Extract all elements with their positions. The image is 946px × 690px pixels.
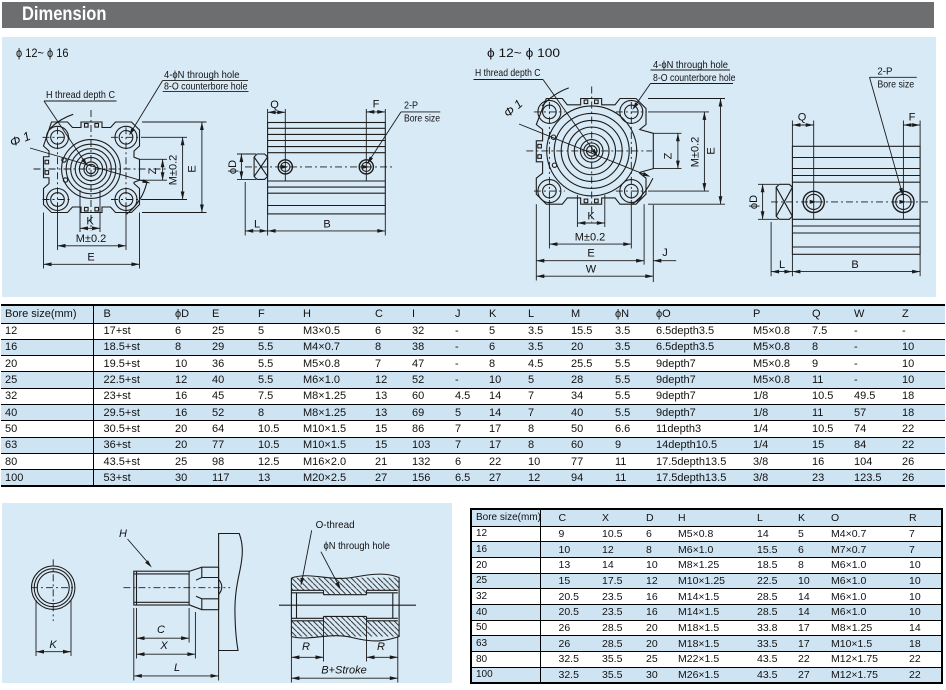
svg-text:E: E	[706, 147, 718, 154]
svg-text:4-ϕN through hole: 4-ϕN through hole	[164, 69, 240, 81]
dim M+-0.2 (TL right)	[141, 136, 187, 138]
svg-text:2-P: 2-P	[877, 66, 892, 78]
body profile lines	[268, 127, 386, 129]
rod boss	[776, 184, 792, 219]
body profile lines	[792, 157, 920, 159]
phiN through hole bore	[324, 594, 367, 596]
counterbore hole	[47, 126, 69, 148]
centerline	[123, 587, 230, 589]
section body hatched bottom band	[291, 616, 399, 636]
dim J (TR)	[652, 205, 654, 282]
section rotation arcs	[50, 114, 73, 128]
dim E (TL bottom)	[43, 213, 45, 269]
svg-text:Bore size: Bore size	[877, 79, 914, 91]
svg-text:Φ 1: Φ 1	[501, 97, 525, 121]
dim Z (TR)	[653, 132, 681, 134]
svg-text:E: E	[187, 165, 199, 172]
counterbore hole	[538, 180, 561, 203]
svg-text:O-thread: O-thread	[316, 519, 355, 531]
dim R left	[290, 637, 292, 683]
dim phiD (TL)	[237, 153, 256, 155]
counterbore hole	[620, 180, 643, 203]
dim B (TR)	[919, 254, 921, 276]
centerline	[245, 166, 394, 168]
pilot holes	[62, 158, 66, 162]
svg-text:ϕD: ϕD	[748, 195, 760, 209]
counterbore hole	[115, 126, 137, 148]
dim Q (TR)	[791, 121, 793, 147]
dim K (TR)	[576, 195, 578, 227]
section body hatched top band	[291, 578, 399, 595]
rod side view body	[134, 571, 189, 605]
svg-text:L: L	[254, 219, 260, 231]
dim X (rod)	[194, 612, 196, 659]
dim M+-0.2 (TR right)	[648, 111, 709, 113]
front view mounting plate outline	[536, 99, 653, 205]
svg-text:H thread depth C: H thread depth C	[475, 67, 541, 79]
cylinder body partial (wavy)	[219, 534, 243, 651]
dimension table 1 (bore 12-100, cols B..Z)	[1, 304, 945, 487]
bore concentric circles	[62, 140, 121, 199]
svg-text:ϕN through hole: ϕN through hole	[324, 540, 391, 552]
port 2-P left	[803, 191, 824, 212]
dim F (TR)	[902, 121, 904, 220]
dim phiD (TR)	[758, 183, 778, 185]
port 2-P right	[893, 191, 914, 212]
O-thread recess left	[291, 589, 323, 591]
svg-text:M±0.2: M±0.2	[575, 232, 606, 244]
svg-text:Z: Z	[147, 167, 159, 174]
dim E (TR bottom)	[535, 204, 537, 280]
svg-text:X: X	[159, 640, 168, 652]
svg-text:8-O counterbore hole: 8-O counterbore hole	[164, 81, 248, 93]
centerlines	[90, 110, 92, 231]
dim K (TL)	[79, 190, 81, 232]
svg-text:J: J	[662, 247, 668, 259]
svg-text:H thread depth C: H thread depth C	[46, 89, 115, 101]
svg-text:ϕ 12~ ϕ 16: ϕ 12~ ϕ 16	[16, 46, 69, 60]
counterbore hole	[538, 100, 561, 123]
centerline	[771, 201, 928, 203]
dim L (rod)	[133, 608, 135, 681]
svg-text:8-O counterbore hole: 8-O counterbore hole	[653, 72, 736, 84]
svg-text:Q: Q	[270, 99, 279, 111]
svg-text:E: E	[87, 252, 94, 264]
svg-text:B: B	[323, 219, 330, 231]
svg-text:Z: Z	[663, 152, 675, 159]
svg-text:L: L	[174, 662, 180, 674]
dimension table 2 (rod end, cols C..R)	[470, 508, 943, 684]
section rotation arcs	[542, 88, 569, 106]
dim K (rod)	[35, 600, 37, 656]
dim R right	[366, 621, 368, 662]
svg-text:K: K	[86, 216, 94, 228]
dim E (TR right)	[648, 98, 725, 100]
counterbore hole	[620, 100, 643, 123]
dim C (rod)	[136, 608, 138, 659]
O-thread recess right	[367, 589, 398, 591]
dim L (TL)	[244, 182, 246, 236]
section outline	[290, 578, 292, 637]
svg-text:4-ϕN through hole: 4-ϕN through hole	[653, 59, 728, 71]
thread lines	[134, 573, 189, 575]
centerlines	[591, 87, 593, 223]
dim Z (TL right)	[140, 158, 168, 160]
hex head	[189, 567, 219, 580]
centerlines	[52, 559, 54, 621]
svg-text:R: R	[377, 641, 385, 653]
counterbore hole	[115, 189, 137, 211]
svg-text:M±0.2: M±0.2	[168, 155, 180, 186]
svg-text:F: F	[909, 112, 916, 124]
svg-text:Q: Q	[798, 112, 807, 124]
dim B+Stroke	[291, 677, 397, 679]
dim W (TR)	[536, 275, 653, 277]
svg-text:K: K	[49, 639, 57, 651]
svg-text:E: E	[587, 248, 594, 260]
rod tip arc	[219, 579, 222, 594]
svg-text:2-P: 2-P	[404, 100, 418, 112]
svg-text:B+Stroke: B+Stroke	[321, 665, 367, 677]
dim B (TL)	[384, 214, 386, 236]
svg-text:H: H	[119, 528, 127, 540]
dim M+-0.2 (TL bottom)	[57, 205, 59, 250]
pilot holes	[551, 135, 555, 139]
counterbore hole	[47, 189, 69, 211]
svg-text:Φ 1: Φ 1	[8, 129, 33, 150]
centerline	[279, 604, 416, 606]
bore concentric circles	[547, 106, 637, 196]
dim F (TL)	[365, 109, 367, 181]
top blue drawing panel	[2, 37, 936, 297]
rod end circle view	[32, 566, 75, 609]
svg-text:R: R	[302, 641, 310, 653]
svg-text:K: K	[587, 211, 595, 223]
dim L (TR)	[770, 222, 772, 276]
svg-text:B: B	[851, 259, 858, 271]
title bar "Dimension"	[2, 2, 934, 28]
side view body	[268, 123, 386, 214]
svg-text:ϕD: ϕD	[227, 160, 239, 174]
svg-text:ϕ 12~ ϕ 100: ϕ 12~ ϕ 100	[487, 46, 560, 60]
rod boss	[254, 154, 268, 179]
svg-text:C: C	[157, 624, 165, 636]
dim Q (TL)	[267, 109, 269, 123]
svg-text:L: L	[779, 259, 785, 271]
port 2-P left	[278, 160, 292, 174]
svg-text:M±0.2: M±0.2	[76, 233, 107, 245]
dim M+-0.2 (TR bottom)	[548, 200, 550, 249]
svg-text:W: W	[586, 264, 597, 276]
port 2-P right	[359, 160, 373, 174]
side view body	[792, 146, 920, 254]
front view mounting plate outline	[44, 122, 140, 213]
svg-text:Bore size: Bore size	[404, 113, 440, 125]
svg-text:M±0.2: M±0.2	[690, 137, 702, 168]
dim E (TL right)	[142, 121, 207, 123]
bottom blue drawing panel	[2, 503, 452, 683]
svg-text:F: F	[373, 99, 380, 111]
